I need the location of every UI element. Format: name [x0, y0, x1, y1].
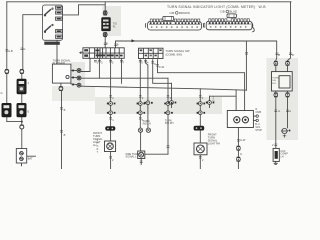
label rear box [255, 108, 262, 132]
svg-text:LH: LH [280, 155, 283, 158]
relay bottom bullet 2 [286, 93, 290, 97]
hazard switch SW1 box [43, 5, 63, 40]
front turn signal light assembly B1 [17, 79, 27, 95]
svg-text:LIGHT RH: LIGHT RH [208, 142, 220, 146]
wire lamp3 link [145, 153, 168, 155]
wire flasher2 pin stubs [71, 70, 77, 72]
wire companion feed rear [210, 95, 237, 97]
band bullets row1 [107, 101, 214, 106]
indicator lamp LH [138, 128, 142, 132]
svg-text:BROWN: BROWN [179, 11, 190, 15]
wire hatch ticks [6, 43, 293, 163]
svg-text:IND LH: IND LH [143, 123, 151, 126]
junction strip connector row [83, 48, 124, 59]
svg-text:G: G [240, 152, 242, 156]
wire flasher to strip [104, 37, 106, 48]
wire diode box BAT stub [27, 155, 36, 157]
turn signal flasher pin dots [72, 70, 74, 86]
wire color labels [1, 42, 295, 163]
relay top bullet 1 [274, 61, 278, 65]
flasher output bullet 1 [77, 69, 81, 73]
svg-text:BAT: BAT [28, 156, 33, 160]
left wire bullet RH [20, 70, 24, 74]
rear combination light box [227, 111, 253, 128]
svg-text:G: G [154, 62, 156, 66]
front turn signal lamp RH box [194, 143, 207, 155]
wire rear box left lamp [235, 90, 237, 111]
wire hazard sw to flasher2 [56, 40, 58, 64]
wire relay top pins [287, 66, 289, 72]
wire left feed down [6, 2, 8, 70]
wire rear box bottom [237, 128, 239, 147]
wire circle2 horizontal [81, 77, 168, 79]
wire circle1 to strip [81, 58, 90, 71]
svg-text:G: G [278, 109, 280, 113]
wire group2 companion [171, 83, 173, 100]
svg-text:G: G [213, 99, 215, 103]
svg-text:G-W: G-W [159, 65, 165, 69]
diode box D1 [16, 149, 26, 167]
wire hazard sw left pin [23, 15, 43, 70]
strip left arrow [80, 52, 84, 54]
wire indicator LH to lamp3 [140, 132, 142, 151]
svg-text:C/B: C/B [220, 10, 225, 14]
front turn signal light assembly B3 [17, 103, 27, 117]
wire flasher drop [104, 2, 106, 11]
label C/B blue [220, 10, 237, 14]
wire right lower column [287, 97, 289, 128]
rear wire bullet 2 [237, 157, 241, 161]
hazard switch pivot dots [44, 15, 46, 17]
front turn signal light assembly B2 [2, 103, 12, 117]
comb connector 1 [145, 16, 203, 30]
left column connector circle [20, 125, 24, 129]
svg-text:O: O [97, 146, 99, 148]
label front turn LH [93, 131, 103, 147]
label front turn RH [208, 133, 220, 146]
wire group3 main [199, 89, 201, 102]
svg-text:BLUE: BLUE [230, 10, 237, 14]
rear side marker light box [273, 148, 279, 164]
indicator lamp RH [146, 128, 150, 132]
wire rear side marker column [275, 97, 277, 148]
wire to diode box [21, 122, 23, 125]
svg-text:C/B: C/B [170, 11, 175, 15]
wire indicator RH column [146, 60, 148, 101]
wire branch to rear box left [245, 41, 247, 90]
flasher output bullet 3 [77, 83, 81, 87]
relay top bullet 2 [286, 61, 290, 65]
label indicator RH [165, 120, 174, 126]
left wire bullet LH [5, 70, 9, 74]
svg-text:TURN SIGNAL INDICATOR LIGHT (C: TURN SIGNAL INDICATOR LIGHT (COMB. METER… [167, 5, 266, 9]
wire right-left column lower [21, 74, 23, 79]
svg-text:G: G [1, 91, 3, 95]
flasher F1 black module [101, 17, 110, 31]
svg-text:B: B [106, 42, 108, 46]
wire right bus drop [288, 2, 291, 62]
front turn signal lamp LH box [105, 141, 116, 152]
label turn signal relay [272, 78, 278, 85]
hazard switch contacts lower [45, 26, 52, 32]
shaded zone left connector cluster [71, 62, 85, 93]
wire flasher2 bottom pin [60, 83, 62, 87]
wire relay bottom pins [275, 91, 277, 93]
label side lamp [125, 153, 139, 159]
inline connector front LH [105, 126, 115, 130]
shaded zone main band [95, 97, 222, 114]
label C/B brown [170, 11, 190, 15]
label rear side marker [280, 150, 288, 158]
wire hazard sw right pin to top bus [63, 5, 106, 15]
wire TS sw LH horizontal [158, 60, 245, 111]
svg-text:B: B [64, 108, 66, 112]
svg-text:RLY: RLY [272, 83, 277, 85]
side lamp box [138, 151, 145, 159]
rear wire bullet 1 [237, 146, 241, 150]
shaded zone flasher [103, 6, 122, 36]
hazard switch label [44, 42, 60, 45]
label indicator LH [143, 120, 151, 126]
turn signal switch cell marks [140, 49, 162, 56]
svg-text:G: G [23, 47, 25, 51]
svg-text:IND RH: IND RH [165, 122, 174, 125]
wire group3 companion [209, 96, 211, 100]
comb connector 2 [204, 14, 254, 32]
wire rear box side terminals [253, 115, 256, 117]
wire front LH below lamp [110, 152, 112, 170]
svg-text:G-W: G-W [240, 138, 246, 142]
shaded zone left band [52, 86, 95, 101]
wire front LH column [110, 58, 112, 101]
right lower connector symbol [281, 128, 291, 137]
wire left column lower [6, 74, 8, 104]
inline connector front RH [194, 126, 205, 131]
B feed arrow marker [132, 39, 136, 42]
flasher top bullet connector [103, 11, 107, 15]
svg-text:B: B [278, 53, 280, 57]
wire strip pin2 drop [98, 58, 100, 78]
junction dot left columns [21, 121, 23, 123]
svg-text:B: B [292, 53, 294, 57]
wire B feed long horizontal [116, 41, 277, 62]
relay bottom bullet 1 [274, 93, 278, 97]
wire bottom-left long [61, 91, 63, 169]
svg-text:SIGNAL L: SIGNAL L [125, 156, 137, 159]
wire strip pin 4 drop [121, 58, 123, 83]
svg-text:G: G [289, 109, 291, 113]
wire group2 main [167, 78, 169, 101]
wire TS sw RH horizontal [153, 60, 172, 84]
svg-text:E: E [28, 110, 30, 114]
svg-text:STOP: STOP [255, 129, 262, 132]
flasher bottom bullet connector [103, 33, 107, 37]
wire join [7, 121, 22, 123]
vertical small text column [97, 140, 99, 154]
svg-text:B: B [64, 133, 66, 137]
wire below side lamp [140, 159, 142, 165]
wire top bus [7, 1, 291, 3]
flasher bottom bullet [59, 87, 63, 91]
strip cell marks [84, 49, 122, 57]
svg-text:G-B: G-B [8, 49, 13, 53]
wire circle3 long horizontal [81, 86, 246, 90]
hazard switch contacts upper [45, 9, 52, 15]
turn signal relay box [272, 72, 293, 91]
svg-text:(COMB. SW): (COMB. SW) [166, 52, 182, 56]
wire front RH below lamp [199, 155, 201, 169]
svg-text:B: B [117, 43, 119, 47]
svg-text:FLASHER: FLASHER [53, 61, 65, 65]
turn signal flasher box [52, 64, 71, 83]
flasher output bullet 2 [77, 76, 81, 80]
rear box side terminal circles [256, 115, 258, 122]
shaded zone right region [267, 58, 299, 140]
turn signal switch connector box [139, 48, 164, 58]
wire indicator LH column [139, 60, 141, 102]
svg-text:CMB: CMB [256, 111, 262, 114]
hazard switch terminal cells [56, 6, 63, 9]
band bullets row2 [107, 111, 205, 115]
